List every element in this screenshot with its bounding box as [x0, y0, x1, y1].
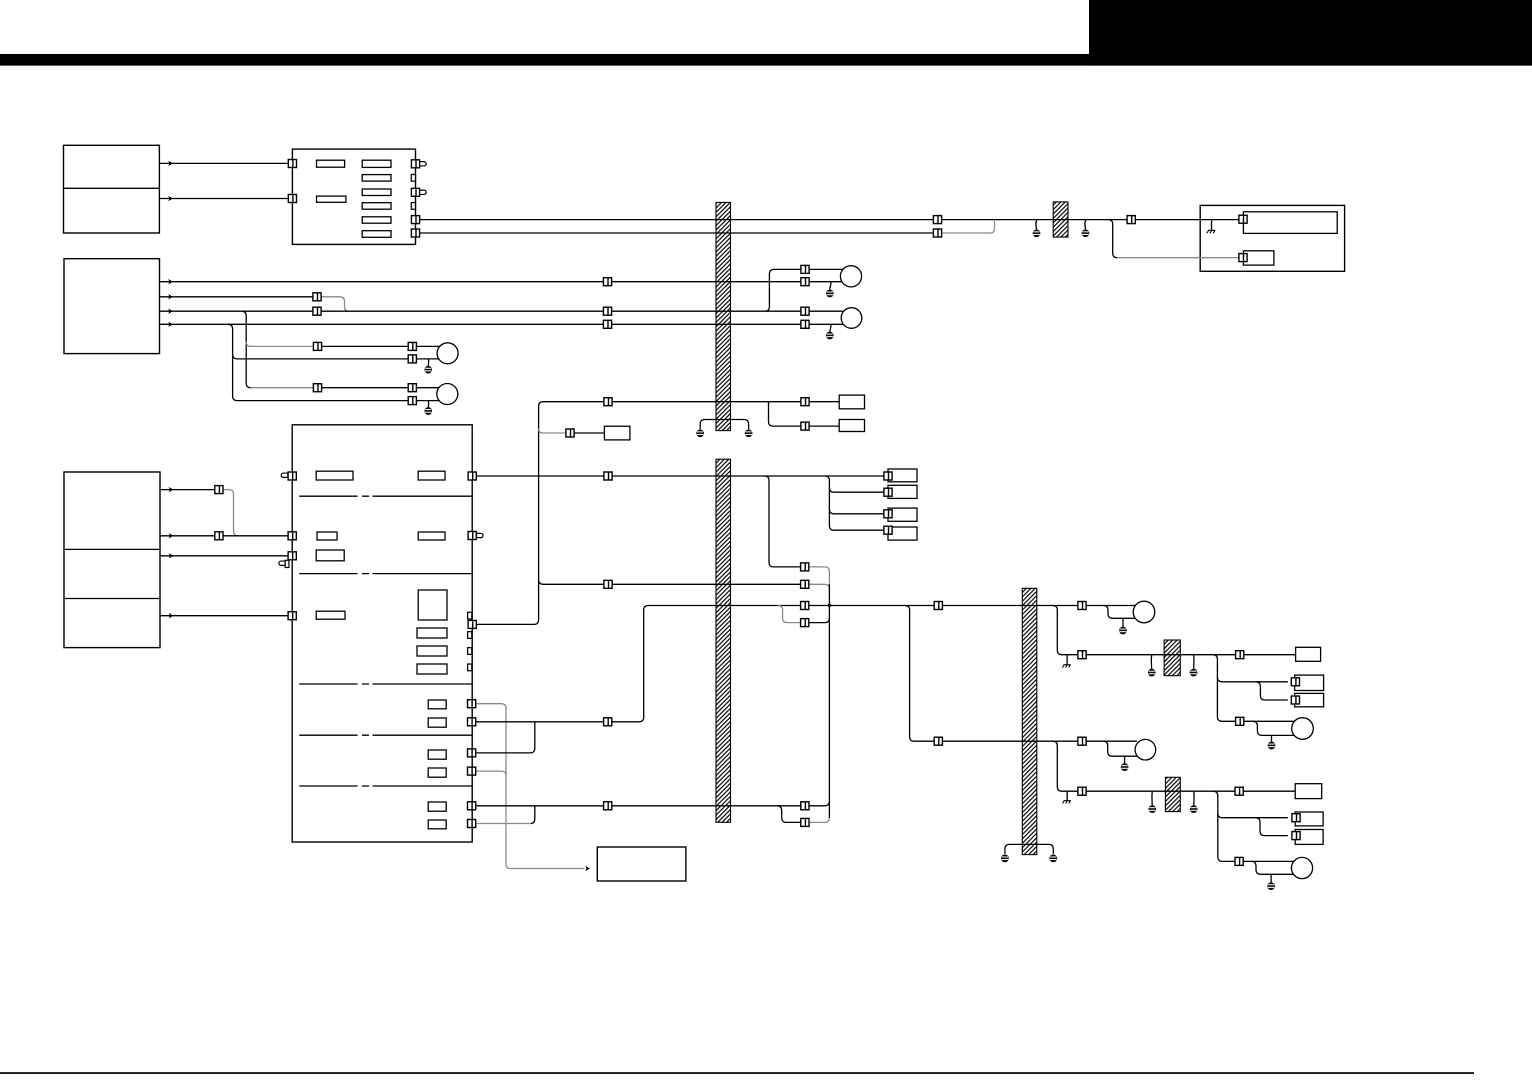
wire sensor line 3 — [160, 555, 288, 557]
wire relay output A continued — [941, 219, 1127, 221]
sensor box divider 2 — [64, 598, 160, 600]
wire drop A bottom to lamp L2 — [251, 387, 314, 389]
relay contact 1 — [362, 160, 391, 167]
connector box R3 — [884, 510, 892, 518]
connector horn2 low — [801, 320, 809, 328]
wire small box lead — [574, 432, 605, 434]
wire to box R2 — [829, 488, 884, 493]
connector row 791 a — [1078, 787, 1086, 795]
tab plug relay 2 — [420, 190, 427, 194]
wire row 805 to trunk — [809, 801, 830, 806]
wire branch up to horn 1 top — [765, 269, 801, 311]
wire conn row A to trunk — [809, 567, 830, 584]
relay coil 2 — [317, 196, 346, 202]
connector relay tab 2 — [411, 188, 419, 196]
wire switch line 1 — [160, 281, 604, 283]
wire row 681 to box A2 — [1217, 677, 1287, 682]
connector lamp F2 — [1235, 857, 1243, 865]
wire switch line 2 merge down — [321, 297, 349, 311]
main unit — [292, 425, 472, 842]
harness bar 4 — [1022, 588, 1037, 854]
ground ball drain left — [696, 429, 704, 437]
connector main L1 — [288, 472, 296, 480]
stub square main R a — [468, 612, 472, 619]
wire sensor line 1 — [160, 489, 215, 491]
wire drop B branch lamp L1 bottom — [233, 354, 409, 359]
box B2 — [1295, 812, 1323, 826]
wire relay output A (main feed) — [419, 219, 933, 221]
main unit rect 4b — [417, 646, 447, 656]
connector main R e3 — [468, 749, 476, 757]
horn 1 — [840, 266, 861, 287]
wire drop B from line 4 — [228, 324, 408, 400]
harness bar 1 — [716, 202, 731, 430]
wire switch line 2 — [160, 296, 314, 298]
box A1 — [1296, 647, 1321, 661]
wire e3 merge up — [475, 722, 534, 753]
control unit top right — [1200, 205, 1344, 271]
switch box B2 — [64, 259, 160, 354]
connector box R1 — [884, 472, 892, 480]
wire branch x769 down to conn row A — [765, 476, 801, 567]
small box trunk branch — [604, 426, 630, 440]
arrowhead sensor line 2 — [169, 533, 174, 538]
ground ball right of grommet — [1082, 229, 1090, 237]
main unit rect 6a — [428, 750, 446, 759]
connector row C right — [801, 602, 809, 610]
main unit big square — [418, 590, 447, 620]
relay contact 3 — [362, 189, 391, 196]
wire main out 1 (y476) — [476, 475, 604, 477]
main unit rect 7b — [428, 820, 446, 829]
harness grommet A — [1164, 640, 1180, 676]
tab plug relay 1 — [420, 162, 427, 166]
wire branch D from row C — [778, 606, 801, 623]
stub square main R d — [468, 664, 472, 671]
lamp E2 — [1135, 739, 1156, 760]
connector main R1 — [468, 472, 476, 480]
wire fork down to box B3 — [1256, 818, 1288, 836]
chassis stub row 791 — [1066, 791, 1068, 800]
ground ball left of grommet — [1033, 229, 1041, 237]
connector main R e2 — [468, 718, 476, 726]
harness grommet B — [1165, 777, 1180, 811]
wire branch down x1057 — [1053, 606, 1078, 655]
connector box R2 — [884, 488, 892, 496]
wire switch line 3 to horn 2 — [809, 310, 844, 312]
connector box B2 — [1292, 814, 1300, 822]
wire BB2 lead — [809, 425, 839, 427]
connector row 654 b — [1236, 651, 1244, 659]
connector row 791 b — [1235, 787, 1243, 795]
bottom rule — [0, 1072, 1474, 1074]
wire e5 row right — [612, 805, 802, 807]
stub square main L3 — [285, 560, 289, 567]
connector lampL2 b — [408, 384, 416, 392]
wire e5-e6 junction — [530, 806, 535, 824]
ground stub right of grommet A — [1192, 655, 1195, 669]
box BB2 — [839, 420, 864, 432]
wire row 654 right — [1086, 654, 1236, 656]
wire row 741 right — [942, 740, 1078, 742]
wire main out 1 right — [612, 475, 884, 477]
shield drain over bar 4 — [1005, 844, 1053, 854]
wire lamp L2 top mid — [321, 387, 408, 389]
ground stub right of grommet B — [1193, 791, 1196, 805]
connector row 741 — [934, 737, 942, 745]
wire lamp F2 U-loop — [1252, 861, 1294, 874]
arrowhead sensor line 4 — [169, 613, 174, 618]
ground stub lamp F1 — [1271, 735, 1273, 742]
main unit divider 4 — [299, 734, 472, 736]
ground stub horn 2 — [830, 325, 831, 333]
wire lamp L2 top lead — [416, 387, 439, 389]
connector row 476 — [604, 472, 612, 480]
stub square main R b — [468, 632, 472, 639]
wire relay output B merge up — [941, 220, 994, 233]
connector main L3 — [288, 552, 296, 560]
arrowhead switch line 4 — [168, 322, 173, 327]
connector horn1 top — [801, 265, 809, 273]
connector lampL1 b — [408, 342, 416, 350]
ground stub left of grommet — [1035, 220, 1038, 230]
main unit divider 1 — [299, 495, 472, 497]
ground stub lamp E1 — [1122, 618, 1124, 627]
wire lamp L1 top lead — [416, 345, 439, 347]
wire branch down x1057 lower — [1053, 741, 1078, 791]
connector lampL1 c — [408, 355, 416, 363]
main unit rect 2L — [317, 532, 337, 540]
connector relay out A — [411, 216, 419, 224]
relay contact 6 — [362, 231, 391, 238]
wire row 822 to trunk — [809, 818, 829, 823]
connector sensor 1 — [215, 486, 223, 494]
ground ball left of grommet A — [1148, 669, 1156, 677]
horn 2 — [841, 308, 862, 329]
arrowhead switch line 3 — [168, 309, 173, 314]
lamp L1 — [437, 343, 458, 364]
wire drop A branch to lamp L1 — [246, 342, 313, 347]
connector box B3 — [1292, 832, 1300, 840]
connector switch 1a — [603, 278, 611, 286]
tab plug main R2 — [477, 533, 484, 537]
sensor box B3 — [64, 472, 160, 648]
connector horn2 top — [801, 307, 809, 315]
lamp E1 — [1133, 601, 1155, 623]
fuse box B1 — [64, 145, 160, 233]
connector main feed 2 — [933, 229, 941, 237]
connector BB2 lead — [801, 422, 809, 430]
connector row B right — [801, 580, 809, 588]
connector main R e5 — [468, 802, 476, 810]
box A3 — [1295, 693, 1324, 706]
arrowhead sensor line 1 — [169, 487, 174, 492]
wire row 817 to box B2 — [1218, 813, 1288, 818]
main unit rect 4a — [417, 628, 447, 638]
wire e4 merge into e1 trunk — [475, 771, 506, 776]
wire switch line 3 right — [611, 310, 801, 312]
ground stub lamp F2 — [1270, 874, 1272, 882]
wire row C dot junction — [828, 605, 830, 607]
ground ball horn 1 — [826, 290, 834, 298]
connector main feed 1 — [933, 216, 941, 224]
option box (arrow) — [597, 847, 686, 881]
connector relay in 2 — [288, 195, 296, 203]
main unit divider 5 — [299, 785, 472, 787]
arrowhead line 2 — [168, 196, 173, 201]
wire switch line 4 to horn 2 — [809, 323, 843, 325]
title bar strip — [0, 54, 1532, 66]
ground ball lamp E2 — [1121, 763, 1129, 771]
ground ball drain right — [745, 429, 753, 437]
tab plug main L1 — [281, 473, 288, 477]
wire east drop x910 — [905, 606, 934, 742]
wire fork down to box A3 — [1256, 682, 1288, 700]
wire e2 up to row C — [612, 606, 801, 722]
ground stub right of grommet — [1084, 220, 1087, 230]
control unit small rect — [1243, 251, 1274, 265]
wire trunk branch row B — [539, 580, 605, 585]
wire row 654 to box A1 — [1244, 654, 1296, 656]
wire fuse-box to relay box line 2 — [159, 198, 288, 200]
chassis ground row 791 — [1062, 801, 1071, 804]
relay contact 5 — [362, 217, 391, 223]
wire row 721 to lamp F1 — [1244, 720, 1295, 722]
connector main L2 — [288, 532, 296, 540]
connector row D right — [801, 619, 809, 627]
wire to box R3 — [829, 509, 884, 514]
wire lamp L2 bottom lead — [416, 400, 439, 402]
control unit big rect — [1243, 212, 1337, 234]
connector horn1 low — [801, 278, 809, 286]
connector row 805 right — [801, 802, 809, 810]
wire lower pigtail to unit — [1117, 257, 1239, 259]
main unit rect 2R — [418, 532, 445, 540]
box BB1 — [839, 395, 864, 409]
connector lamp E2 — [1078, 737, 1086, 745]
connector trunk top row — [604, 398, 612, 406]
arrowhead to option box — [585, 866, 590, 871]
wire conn row B to trunk — [809, 584, 830, 589]
tab plug main L3 — [279, 561, 286, 565]
wire drop A from line 3 — [242, 311, 251, 388]
connector small box — [566, 429, 574, 437]
connector main R2 — [468, 532, 476, 540]
relay box — [292, 149, 415, 244]
chassis ground stub in unit — [1210, 220, 1213, 230]
ground ball drain bar4 right — [1049, 855, 1057, 863]
wire branch x1217 down lower — [1213, 791, 1234, 861]
box R2 — [888, 485, 917, 498]
wire row C to lamp E1 — [1086, 605, 1136, 607]
ground ball lamp F2 — [1267, 882, 1275, 890]
wire e5 row — [475, 805, 603, 807]
relay contact 4 — [362, 203, 391, 210]
wire branch x829 down to boxes — [825, 476, 884, 530]
box R1 — [888, 469, 917, 482]
lamp F1 — [1292, 718, 1314, 740]
wire lamp E2 U-loop — [1103, 741, 1137, 756]
connector main R e1 — [468, 700, 476, 708]
main unit rect 7a — [428, 802, 446, 811]
sensor box divider 1 — [64, 548, 160, 550]
connector unit big rect — [1239, 215, 1247, 223]
connector relay out B — [411, 229, 419, 237]
box B3 — [1295, 830, 1323, 845]
main unit rect 4c — [417, 664, 447, 674]
connector row A right — [801, 563, 809, 571]
main unit rect 1L — [316, 471, 353, 480]
ground ball left of grommet B — [1148, 805, 1156, 813]
connector e2 mid — [604, 718, 612, 726]
wire row 741 to lamp E2 — [1086, 740, 1137, 742]
connector switch 3a — [313, 307, 321, 315]
arrowhead switch line 2 — [168, 294, 173, 299]
stub square relay 1 — [411, 174, 415, 181]
main unit rect 1R — [418, 471, 445, 480]
wire branch down to lower pigtail — [1108, 220, 1117, 258]
title block solid — [1089, 0, 1532, 66]
connector box A3 — [1291, 696, 1299, 704]
harness bar 3 — [716, 459, 731, 822]
ground ball lamp L2 — [424, 407, 432, 415]
connector row B mid — [604, 580, 612, 588]
connector relay tab 1 — [411, 160, 419, 168]
ground ball right of grommet B — [1190, 805, 1198, 813]
connector switch 3b — [603, 307, 611, 315]
connector box R4 — [884, 526, 892, 534]
connector row 822 right — [801, 818, 809, 826]
connector main R3 — [468, 620, 476, 628]
wire lamp E1 U-loop — [1104, 606, 1136, 619]
wire branch row 822 — [777, 806, 801, 823]
connector lamp E1 — [1078, 602, 1086, 610]
wire relay output A to unit — [1135, 219, 1239, 221]
connector lampL2 a — [313, 384, 321, 392]
connector row 654 a — [1078, 651, 1086, 659]
main unit divider 2 — [299, 573, 472, 575]
wire relay output B — [419, 232, 933, 234]
connector e5 mid — [604, 802, 612, 810]
wire main out 3 trunk — [476, 402, 604, 625]
ground ball horn 2 — [826, 332, 834, 340]
connector main R e6 — [468, 820, 476, 828]
stub square main R c — [468, 648, 472, 655]
ground ball right of grommet A — [1190, 669, 1198, 677]
wire row 791 to box B1 — [1243, 790, 1295, 792]
main unit rect 3L — [316, 611, 345, 619]
wire sensor line 1 merge — [223, 490, 238, 536]
connector lamp F1 — [1236, 717, 1244, 725]
wire e1 gray to relay box lower — [475, 704, 584, 869]
fuse box divider — [64, 187, 160, 189]
wire row B right — [612, 583, 801, 585]
ground ball lamp L1 — [424, 366, 432, 374]
connector unit small rect — [1239, 254, 1247, 262]
wire sensor line 2 — [160, 535, 288, 537]
wire lamp F1 U-loop — [1253, 721, 1294, 735]
wire horn 1 top lead — [809, 268, 843, 270]
wire row 791 right — [1086, 790, 1235, 792]
arrowhead sensor line 3 — [169, 553, 174, 558]
wire branch x1217 down — [1213, 655, 1236, 722]
box R3 — [888, 508, 917, 521]
lamp F2 — [1291, 857, 1312, 878]
main unit rect 5b — [428, 718, 446, 727]
connector BB1 — [801, 398, 809, 406]
connector box A2 — [1291, 678, 1299, 686]
ground stub lamp L1 — [427, 359, 429, 366]
ground stub left of grommet A — [1150, 655, 1153, 669]
ground ball lamp F1 — [1268, 742, 1276, 750]
box B1 — [1295, 784, 1322, 799]
wire top row to box BB1 — [809, 401, 839, 403]
wire e2 row — [475, 721, 603, 723]
main unit rect 5a — [428, 700, 446, 709]
ground stub lamp E2 — [1124, 756, 1126, 763]
stub square relay 2 — [411, 203, 415, 210]
lamp L2 — [437, 384, 458, 405]
wire e6 gray row — [475, 823, 531, 825]
wire switch line 1 to horn 1 — [809, 281, 842, 283]
box R4 — [888, 527, 917, 540]
wire branch to box BB2 — [769, 402, 802, 426]
wire row 861 to lamp F2 — [1243, 860, 1294, 862]
wire lamp L1 top mid — [321, 345, 408, 347]
ground ball lamp E1 — [1119, 627, 1127, 635]
junction dot row C and trunk — [828, 604, 831, 607]
connector main R e4 — [468, 767, 476, 775]
wire switch line 4 — [160, 323, 604, 325]
wire row C after conn2 — [942, 605, 1078, 607]
connector lampL1 a — [313, 342, 321, 350]
wire switch line 4 right — [611, 323, 801, 325]
connector relay in 1 — [288, 160, 296, 168]
main unit rect 2L2 — [316, 550, 344, 561]
wire conn row D to trunk — [809, 618, 830, 623]
wire fuse-box to relay box line 1 — [159, 162, 288, 164]
connector lampL2 c — [408, 397, 416, 405]
shield drain over bar 1 — [700, 420, 748, 430]
connector sensor 2 — [215, 532, 223, 540]
wire row C right of conn — [809, 605, 935, 607]
connector switch 2a — [313, 293, 321, 301]
wire switch line 1 right — [611, 281, 801, 283]
arrowhead line 1 — [168, 161, 173, 166]
connector feed to unit — [1127, 216, 1135, 224]
wire trunk top row right — [612, 401, 801, 403]
wire switch line 3 — [160, 310, 604, 312]
trunk x829 vertical — [828, 584, 830, 818]
main unit divider 3 — [299, 683, 472, 685]
ground ball drain bar4 left — [1001, 855, 1009, 863]
chassis stub row 654 — [1066, 655, 1068, 665]
wire sensor line 4 — [160, 615, 288, 617]
chassis ground row 654 — [1062, 665, 1071, 668]
wire trunk branch to small box — [539, 429, 566, 434]
connector row C far — [934, 602, 942, 610]
connector switch 4a — [603, 320, 611, 328]
box A2 — [1295, 675, 1324, 690]
relay contact 2 — [362, 175, 391, 182]
arrowhead switch line 1 — [168, 279, 173, 284]
connector main L4 — [288, 612, 296, 620]
relay coil 1 — [317, 160, 345, 167]
ground stub horn 1 — [830, 282, 831, 290]
wire lamp L1 bottom lead — [416, 358, 439, 360]
ground stub left of grommet B — [1151, 791, 1154, 805]
main unit rect 6b — [428, 768, 446, 777]
